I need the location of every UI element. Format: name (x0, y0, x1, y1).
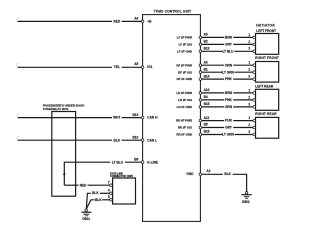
svg-text:A3: A3 (204, 60, 208, 64)
ground G501 (81, 209, 91, 216)
svg-text:CAN H: CAN H (147, 116, 158, 120)
svg-text:A4: A4 (134, 17, 138, 21)
wire RF GND PNK (202, 78, 225, 80)
wire CAN H WHT (18, 117, 113, 119)
svg-text:B16: B16 (204, 130, 210, 134)
initiator left rear box (256, 89, 279, 110)
svg-text:CONNECTOR (16P): CONNECTOR (16P) (110, 174, 133, 178)
svg-text:LF I/F GND: LF I/F GND (177, 49, 193, 53)
svg-text:2: 2 (248, 68, 250, 72)
initiator pins (253, 36, 256, 136)
wire RF PWR ORN (202, 64, 225, 66)
svg-text:3: 3 (248, 130, 250, 134)
initiator right front box (256, 62, 279, 83)
svg-text:1: 1 (248, 33, 250, 37)
svg-text:B4: B4 (204, 95, 208, 99)
svg-text:5: 5 (108, 195, 110, 199)
svg-text:LF I/F PWR: LF I/F PWR (177, 36, 193, 40)
wire K-LINE LT BLU (125, 161, 142, 163)
svg-text:7: 7 (108, 181, 110, 185)
svg-text:A11: A11 (204, 116, 210, 120)
svg-text:LT GRN: LT GRN (222, 70, 234, 74)
svg-text:TPMS CONTROL UNIT: TPMS CONTROL UNIT (154, 10, 192, 14)
svg-text:3: 3 (248, 47, 250, 51)
svg-text:INITIATOR: INITIATOR (256, 24, 275, 28)
svg-text:2: 2 (248, 95, 250, 99)
svg-text:PUR: PUR (225, 119, 232, 123)
wire LR GND GRN (202, 106, 225, 108)
control unit left pins (141, 20, 144, 163)
wire LF PWR BRN (202, 36, 225, 38)
svg-text:1: 1 (248, 116, 250, 120)
initiator pin numbers 1 2 3 (248, 33, 250, 134)
svg-text:PNK: PNK (225, 77, 232, 81)
right pin labels A/B (204, 33, 210, 134)
wire RF SIG LT GRN (202, 71, 223, 73)
svg-text:2: 2 (248, 123, 250, 127)
svg-text:BRN: BRN (225, 36, 233, 40)
wire LF SIG GRY (202, 43, 225, 45)
svg-text:RR I/F PWR: RR I/F PWR (176, 119, 193, 123)
svg-text:LF I/F SIG: LF I/F SIG (179, 43, 193, 47)
wire LF GND LT BLU (202, 50, 223, 52)
svg-text:GRY: GRY (225, 43, 233, 47)
svg-text:BLK: BLK (224, 172, 231, 176)
svg-text:4: 4 (108, 188, 110, 192)
svg-text:B2: B2 (204, 40, 208, 44)
junction dot on K-line branch (63, 173, 65, 175)
control unit inside labels right (176, 36, 193, 137)
svg-text:BLK: BLK (114, 138, 121, 142)
svg-text:RED: RED (80, 183, 87, 187)
svg-text:1: 1 (248, 61, 250, 65)
wire RR GND LT GRN (202, 134, 223, 136)
wire RR SIG GRY (202, 127, 225, 129)
svg-text:A2: A2 (206, 169, 210, 173)
off-page arrow curl wire 2 (16, 63, 19, 66)
wire LR SIG PNK (202, 99, 225, 101)
wire GND BLK (202, 173, 223, 175)
svg-text:RIGHT FRONT: RIGHT FRONT (255, 56, 279, 60)
svg-text:LEFT REAR: LEFT REAR (255, 85, 274, 89)
svg-text:FUSE/RELAY BOX: FUSE/RELAY BOX (43, 107, 68, 111)
svg-text:WHT: WHT (113, 116, 120, 120)
svg-text:LEFT FRONT: LEFT FRONT (256, 29, 276, 33)
svg-text:B5: B5 (204, 123, 208, 127)
svg-text:RED: RED (113, 20, 120, 24)
svg-text:CAN L: CAN L (147, 138, 157, 142)
off-page arrow curl wire 4 (16, 136, 19, 139)
svg-text:LT BLU: LT BLU (222, 49, 234, 53)
svg-text:RF I/F PWR: RF I/F PWR (176, 63, 193, 67)
svg-text:1: 1 (248, 88, 250, 92)
svg-text:IG1: IG1 (147, 65, 152, 69)
svg-text:YEL: YEL (114, 65, 120, 69)
svg-text:BLK: BLK (92, 191, 99, 195)
svg-text:3: 3 (248, 102, 250, 106)
svg-text:B19: B19 (132, 113, 138, 117)
svg-text:BLK: BLK (95, 198, 102, 202)
wire IG1 YEL (18, 66, 113, 68)
svg-text:PNK: PNK (225, 98, 232, 102)
svg-text:K-LINE: K-LINE (147, 160, 158, 164)
svg-text:GND: GND (186, 172, 194, 176)
svg-text:A5: A5 (134, 62, 138, 66)
off-page arrow curl wire 3 (16, 114, 19, 117)
svg-text:LR I/F SIG: LR I/F SIG (178, 98, 193, 102)
initiator right rear box (256, 117, 279, 138)
svg-text:ORN: ORN (225, 63, 233, 67)
svg-text:B10: B10 (132, 135, 138, 139)
svg-text:GRN: GRN (225, 105, 233, 109)
wire BLK DLC pin 5 (102, 199, 109, 201)
svg-text:B13: B13 (204, 47, 210, 51)
off-page arrow curl wire 1 (16, 18, 19, 21)
svg-text:GRY: GRY (225, 126, 233, 130)
svg-text:B1: B1 (204, 67, 208, 71)
svg-text:A9: A9 (204, 33, 208, 37)
wire RR PWR PUR (202, 120, 225, 122)
ground G502 (242, 192, 252, 199)
svg-text:LT GRN: LT GRN (222, 133, 234, 137)
wire LR PWR BRN (202, 92, 225, 94)
TPMS control unit box (143, 15, 201, 222)
right wire color labels (222, 36, 234, 137)
initiator left front box (256, 34, 279, 55)
wire RED to DLC pin 7 (64, 184, 78, 186)
svg-text:RR I/F SIG: RR I/F SIG (178, 126, 193, 130)
DLC pins (110, 184, 113, 201)
svg-text:RF I/F GND: RF I/F GND (177, 77, 193, 81)
svg-text:G501: G501 (82, 217, 90, 221)
svg-text:LT BLU: LT BLU (112, 160, 124, 164)
svg-text:RF I/F SIG: RF I/F SIG (178, 70, 193, 74)
wire BLK DLC pin 4 (100, 192, 110, 194)
wire +B RED (18, 20, 113, 22)
svg-text:G502: G502 (242, 200, 250, 204)
svg-text:3: 3 (248, 75, 250, 79)
svg-text:BRN: BRN (225, 91, 233, 95)
svg-text:B14: B14 (204, 74, 210, 78)
svg-text:2: 2 (248, 40, 250, 44)
svg-text:B6: B6 (134, 157, 138, 161)
svg-text:RIGHT REAR: RIGHT REAR (255, 112, 277, 116)
data link connector box (113, 178, 136, 204)
wire CAN L BLK (18, 139, 113, 141)
passenger's under-dash fuse/relay box (52, 112, 76, 197)
svg-text:RR I/F GND: RR I/F GND (176, 133, 193, 137)
svg-text:B15: B15 (204, 102, 210, 106)
svg-text:A10: A10 (204, 88, 210, 92)
control unit right pins + GND (199, 36, 202, 176)
svg-text:+B: +B (147, 20, 152, 24)
svg-text:LR I/F GND: LR I/F GND (177, 105, 193, 109)
svg-text:LR I/F PWR: LR I/F PWR (176, 91, 193, 95)
